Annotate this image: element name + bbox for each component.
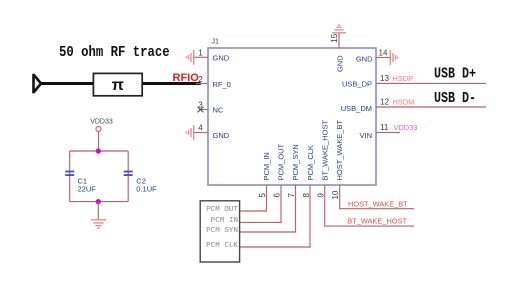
junction top — [96, 148, 101, 153]
ground pin1 — [186, 50, 193, 65]
junction bottom — [96, 199, 101, 204]
svg-text:USB D-: USB D- — [434, 91, 476, 108]
svg-text:PCM IN: PCM IN — [211, 217, 238, 225]
svg-text:BT_WAKE_HOST: BT_WAKE_HOST — [347, 217, 407, 226]
ground pin14 — [390, 50, 397, 65]
svg-text:HOST_WAKE_BT: HOST_WAKE_BT — [348, 199, 408, 208]
op IC U/J1 body — [208, 48, 376, 185]
svg-text:PCM_CLK: PCM_CLK — [306, 145, 315, 180]
pin 1 stub — [194, 56, 208, 58]
svg-text:50 ohm RF trace: 50 ohm RF trace — [59, 44, 170, 61]
svg-text:PCM CLK: PCM CLK — [206, 242, 238, 250]
svg-text:1: 1 — [198, 49, 203, 58]
svg-text:4: 4 — [198, 124, 203, 133]
svg-text:VDD33: VDD33 — [394, 123, 418, 132]
svg-text:PCM_OUT: PCM_OUT — [277, 143, 286, 180]
pi filter box — [93, 73, 142, 95]
svg-text:PCM_SYN: PCM_SYN — [291, 144, 300, 180]
svg-text:USB_DP: USB_DP — [342, 79, 372, 88]
svg-text:11: 11 — [380, 123, 389, 132]
svg-text:12: 12 — [380, 98, 389, 107]
wire capacitor loop left — [69, 151, 71, 202]
svg-text:RF_0: RF_0 — [213, 80, 231, 89]
wire pin2 stub — [196, 83, 208, 85]
svg-text:RFIO: RFIO — [173, 72, 200, 84]
ground pin15 — [332, 25, 346, 33]
svg-text:USB_DM: USB_DM — [341, 104, 372, 113]
svg-text:0.1UF: 0.1UF — [136, 185, 157, 194]
pin 11 stub — [376, 131, 400, 133]
pin 15 stub — [338, 33, 340, 48]
wire capacitor loop bottom — [70, 201, 129, 203]
svg-text:15: 15 — [330, 33, 339, 42]
svg-text:USB D+: USB D+ — [434, 66, 476, 83]
power pin circle — [96, 127, 101, 132]
wire HSDM — [376, 106, 486, 108]
svg-text:VDD33: VDD33 — [90, 119, 113, 126]
NC cross — [198, 107, 204, 113]
svg-text:π: π — [112, 77, 124, 94]
pin 3 stub — [199, 109, 208, 111]
label C2 0.1UF — [136, 177, 157, 194]
wire pin8 to PCM connector — [240, 185, 310, 247]
wire RF trace left segment — [41, 82, 94, 85]
wire capacitor loop top — [70, 150, 129, 152]
svg-text:GND: GND — [213, 131, 230, 140]
svg-text:2: 2 — [198, 75, 203, 84]
svg-text:6: 6 — [273, 193, 282, 198]
wire pin5 to PCM connector — [240, 185, 267, 211]
wire HSDP — [376, 82, 486, 84]
svg-text:14: 14 — [379, 49, 388, 58]
svg-text:PCM OUT: PCM OUT — [206, 206, 238, 214]
svg-text:5: 5 — [258, 193, 267, 198]
wire to ground — [97, 202, 99, 220]
wire pin10 HOST_WAKE_BT — [340, 185, 414, 209]
ground (capacitor bank) — [91, 220, 106, 228]
pin 4 stub — [194, 132, 208, 134]
svg-text:BT_WAKE_HOST: BT_WAKE_HOST — [320, 120, 329, 181]
wire VDD33 down — [98, 132, 100, 152]
svg-text:NC: NC — [213, 105, 224, 114]
capacitor C1 — [65, 172, 74, 176]
label C1 22UF — [78, 177, 97, 194]
pin 14 stub — [376, 57, 390, 59]
wire pin9 BT_WAKE_HOST — [325, 185, 414, 226]
svg-text:9: 9 — [316, 193, 325, 198]
svg-text:HOST_WAKE_BT: HOST_WAKE_BT — [335, 120, 344, 181]
svg-text:HSDP: HSDP — [393, 74, 414, 83]
svg-text:GND: GND — [356, 55, 373, 64]
antenna symbol — [34, 74, 42, 93]
svg-text:VIN: VIN — [359, 131, 372, 140]
svg-text:PCM SYN: PCM SYN — [206, 227, 238, 235]
svg-text:10: 10 — [331, 190, 340, 199]
svg-text:13: 13 — [380, 74, 389, 83]
wire capacitor loop right — [127, 151, 129, 202]
svg-text:GND: GND — [213, 53, 230, 62]
svg-text:PCM_IN: PCM_IN — [262, 152, 271, 180]
PCM connector box — [200, 201, 239, 262]
svg-text:HSDM: HSDM — [393, 98, 415, 107]
wire pin6 to PCM connector — [240, 185, 281, 222]
capacitor C2 — [124, 172, 133, 176]
wire pin7 to PCM connector — [240, 185, 296, 232]
svg-text:J1: J1 — [212, 39, 220, 46]
ground pin4 — [186, 125, 193, 140]
wire RF trace right segment — [142, 82, 201, 85]
svg-text:7: 7 — [287, 193, 296, 198]
svg-text:GND: GND — [335, 55, 344, 72]
svg-text:22UF: 22UF — [78, 185, 97, 194]
